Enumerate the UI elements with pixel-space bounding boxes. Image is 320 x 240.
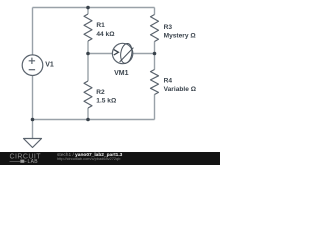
- wire: [133, 53, 155, 55]
- wire: [87, 54, 89, 82]
- svg-text:1.5 kΩ: 1.5 kΩ: [96, 98, 117, 105]
- resistor R3: [151, 15, 197, 42]
- node at R1 top: [86, 6, 90, 10]
- wire: [87, 41, 89, 54]
- node at R3/R4/VM1 junction: [153, 52, 157, 56]
- watermark footer bar: [0, 152, 220, 165]
- resistor R2: [84, 81, 117, 108]
- wire: [87, 108, 89, 120]
- wire: [32, 120, 34, 139]
- voltmeter VM1: [112, 43, 133, 77]
- svg-text:LAB: LAB: [28, 159, 39, 165]
- svg-text:R4: R4: [164, 77, 173, 84]
- node at V1/ground junction: [31, 118, 35, 122]
- wire: [33, 7, 155, 9]
- wire: [154, 8, 156, 15]
- svg-text:Variable Ω: Variable Ω: [164, 86, 197, 93]
- voltage source V1: [22, 55, 54, 76]
- svg-text:R1: R1: [96, 22, 105, 29]
- svg-text:http://circuitlab.com/c/pbad68: http://circuitlab.com/c/pbad68v272qb: [57, 156, 120, 161]
- resistor R4: [151, 70, 197, 95]
- node at R2 bottom: [86, 118, 90, 122]
- wire: [154, 95, 156, 120]
- wire: [33, 119, 89, 121]
- resistor R1: [84, 14, 115, 41]
- svg-text:VM1: VM1: [114, 70, 129, 77]
- wire: [154, 54, 156, 70]
- wire: [88, 119, 155, 121]
- svg-text:V1: V1: [45, 61, 54, 68]
- ground: [24, 139, 42, 148]
- wire: [32, 76, 34, 120]
- wire: [88, 53, 112, 55]
- svg-text:44 kΩ: 44 kΩ: [96, 31, 115, 38]
- svg-text:R3: R3: [164, 24, 173, 31]
- wire: [87, 8, 89, 15]
- svg-text:Mystery Ω: Mystery Ω: [164, 33, 197, 40]
- wire: [32, 8, 34, 55]
- wire: [154, 42, 156, 54]
- svg-text:R2: R2: [96, 89, 105, 96]
- node at R1/R2/VM1 junction: [86, 52, 90, 56]
